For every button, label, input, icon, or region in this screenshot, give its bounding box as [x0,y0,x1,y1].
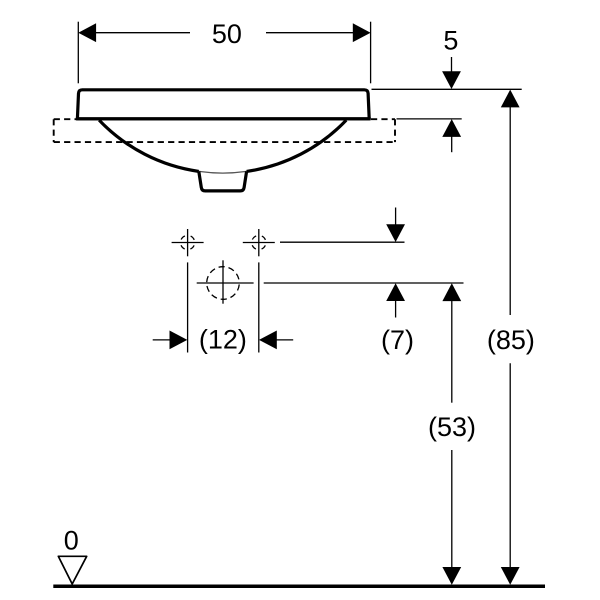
svg-text:0: 0 [64,526,79,556]
svg-text:5: 5 [443,26,458,56]
svg-text:(53): (53) [428,412,476,442]
svg-text:(12): (12) [199,325,247,355]
svg-text:50: 50 [212,19,242,49]
svg-text:(85): (85) [487,325,535,355]
svg-text:(7): (7) [381,325,414,355]
